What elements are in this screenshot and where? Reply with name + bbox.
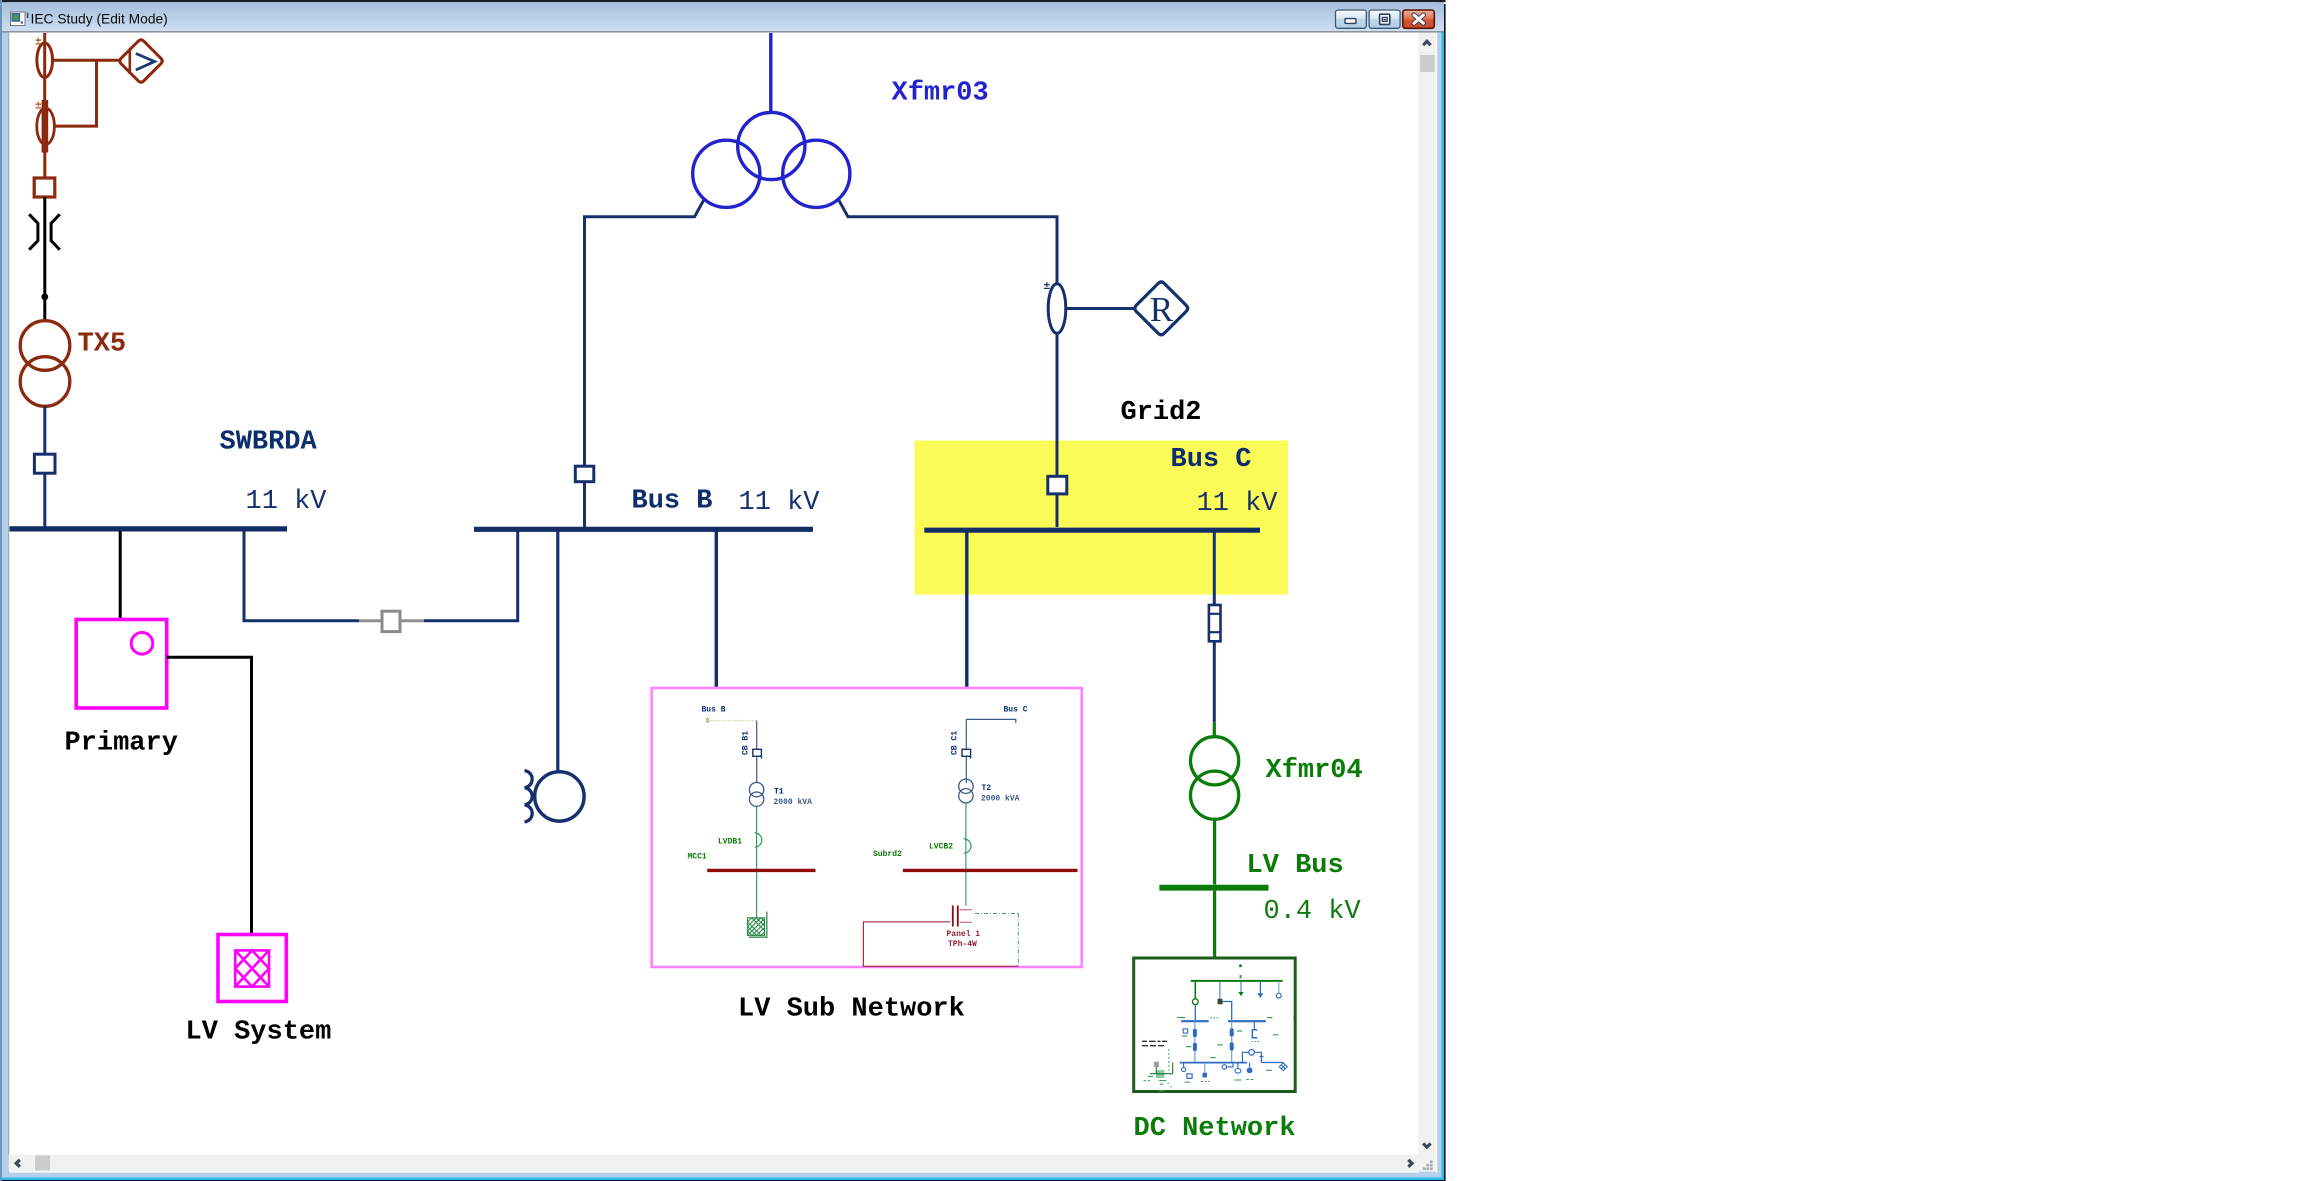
bus Bus B	[474, 527, 813, 532]
wire mini B1	[756, 721, 758, 784]
svg-text:Xfmr03: Xfmr03	[892, 79, 989, 109]
bus LVDB1 (mini, dark red)	[707, 869, 815, 872]
svg-text:LVDB1: LVDB1	[718, 838, 742, 847]
string 1 down	[1194, 1021, 1196, 1062]
wire LV Bus to DC Network	[1213, 891, 1216, 958]
panel capacitor bars	[953, 906, 958, 927]
title bar app icon	[11, 12, 29, 26]
transformer TX5	[20, 321, 70, 371]
bus Subrd2 (mini, dark red)	[903, 869, 1078, 872]
open switch square gray	[382, 611, 400, 631]
wire Bus B to motor	[556, 531, 559, 772]
subnetwork box DC Network	[1134, 958, 1296, 1092]
svg-text:11 kV: 11 kV	[1197, 489, 1279, 519]
svg-text:LV System: LV System	[186, 1018, 332, 1048]
breaker CB B1	[753, 749, 762, 756]
transformer Xfmr03	[769, 33, 772, 113]
bus SWBRDA	[10, 526, 288, 531]
svg-text:±: ±	[35, 37, 42, 49]
wire mini to MCC	[756, 872, 758, 918]
svg-text:Grid2: Grid2	[1121, 398, 1202, 428]
wire Xfmr04 to LV Bus	[1213, 819, 1216, 884]
wire brown to breaker	[43, 153, 46, 179]
bottom feeder c	[1222, 1065, 1226, 1069]
svg-text:LVCB2: LVCB2	[929, 843, 953, 852]
bottom feeder b	[1204, 1063, 1206, 1073]
svg-text:Bus B: Bus B	[702, 706, 726, 715]
load MCC1 hatched square	[748, 912, 767, 938]
bottom feeder e	[1249, 1063, 1251, 1067]
bus DC bottom (blue)	[1180, 1062, 1247, 1064]
svg-text:SWBRDA: SWBRDA	[220, 428, 318, 458]
wire brown vertical into CT1	[43, 33, 46, 43]
small device R	[1183, 1029, 1188, 1033]
horizontal scrollbar right arrow	[1408, 1160, 1412, 1167]
wire black Primary to LV System	[167, 657, 252, 934]
horizontal scrollbar track	[9, 1155, 1437, 1172]
wire mini green	[756, 806, 758, 868]
wire CT to relay R	[1066, 307, 1134, 310]
breaker square Bus B feeder	[575, 466, 594, 482]
svg-text:MCC1: MCC1	[688, 853, 707, 862]
title bar	[2, 2, 1444, 33]
vertical scrollbar track	[1419, 33, 1436, 1172]
svg-text:±: ±	[35, 101, 42, 113]
svg-text:DC Network: DC Network	[1134, 1114, 1296, 1144]
svg-text:TPh-4W: TPh-4W	[948, 940, 977, 949]
canvas	[8, 33, 1419, 1173]
junction dot	[41, 293, 48, 300]
relay R diamond	[1135, 282, 1188, 335]
string 2 down	[1231, 1021, 1233, 1062]
bus DC sub 1 (blue)	[1181, 1020, 1209, 1022]
svg-text:Xfmr04: Xfmr04	[1266, 756, 1363, 786]
feeder 1	[1194, 981, 1196, 999]
wire black down	[43, 197, 46, 321]
breaker LVCB1 (mini arc)	[755, 833, 762, 847]
vertical scrollbar down arrow	[1423, 1143, 1430, 1147]
svg-text:Bus C: Bus C	[1171, 445, 1252, 475]
small source circle	[1278, 981, 1280, 993]
breaker square Bus C feeder	[1048, 476, 1067, 494]
bracket device under bus2	[1253, 1021, 1255, 1029]
wire navy to SWBRDA bus	[43, 473, 46, 527]
wire Bus B into LV Sub Network	[715, 531, 718, 688]
wire branch down to winding	[54, 60, 97, 126]
fuse	[1209, 605, 1221, 641]
CT on Grid2 infeed	[1048, 284, 1066, 334]
resize grip	[1423, 1160, 1433, 1170]
transformer Xfmr04	[1191, 737, 1239, 785]
CT ellipse top-left	[37, 43, 53, 77]
minimize button	[1336, 10, 1367, 28]
svg-text:Subrd2: Subrd2	[873, 850, 902, 859]
wire Xfmr03 left winding to Bus B	[585, 201, 704, 467]
svg-text:R: R	[1150, 290, 1174, 329]
horizontal scrollbar left arrow	[16, 1160, 20, 1167]
yellow highlight on Bus C	[915, 441, 1289, 595]
transformer T1 (mini)	[749, 782, 763, 796]
svg-text:Bus C: Bus C	[1004, 706, 1028, 715]
wire brown horizontal to relay diamond	[53, 59, 120, 62]
left ground cluster	[1154, 1062, 1159, 1067]
bottom feeder a	[1183, 1063, 1185, 1068]
panel outline green dashed	[975, 914, 1018, 967]
wire Bus C into LV Sub Network	[965, 532, 968, 688]
svg-text:IEC Study (Edit Mode): IEC Study (Edit Mode)	[31, 12, 168, 27]
motor M1	[535, 772, 584, 821]
breaker LVCB2 (mini arc)	[964, 839, 971, 853]
wire Xfmr03 right winding to Bus C	[839, 201, 1057, 477]
breaker CB C1	[962, 749, 971, 756]
svg-text:2000 kVA: 2000 kVA	[774, 798, 813, 807]
svg-text:LV Sub Network: LV Sub Network	[738, 995, 965, 1025]
svg-text:11 kV: 11 kV	[739, 488, 821, 518]
bus DC main (green)	[1191, 980, 1283, 982]
wire fuse to Xfmr04	[1213, 641, 1216, 722]
load arrow green	[1240, 981, 1242, 992]
wire navy TX5 to breaker	[43, 406, 46, 454]
svg-text:LV Bus: LV Bus	[1247, 851, 1344, 881]
bottom feeder d	[1237, 1063, 1239, 1069]
maximize button	[1369, 10, 1400, 28]
vertical scrollbar thumb	[1420, 55, 1434, 72]
relay diamond with directional element	[120, 40, 162, 82]
shunt device LV System	[218, 935, 286, 1002]
right branch	[1242, 1052, 1248, 1062]
bus Bus C	[924, 528, 1260, 533]
close button	[1403, 10, 1435, 28]
svg-text:2000 kVA: 2000 kVA	[981, 794, 1020, 803]
window frame band	[0, 0, 1446, 1181]
svg-text:CB B1: CB B1	[742, 731, 751, 755]
load arrow blue	[1259, 981, 1261, 993]
svg-text:CB C1: CB C1	[951, 731, 960, 755]
svg-text:Primary: Primary	[65, 729, 178, 759]
breaker square navy	[34, 454, 55, 473]
wire mini green C	[965, 803, 967, 906]
bus LV Bus	[1159, 885, 1268, 891]
wire mini C1	[966, 719, 1016, 783]
vertical scrollbar up arrow	[1423, 41, 1430, 45]
panel outline red	[863, 922, 1018, 967]
transformer T2 (mini)	[959, 779, 973, 793]
svg-text:Bus B: Bus B	[632, 487, 713, 517]
dotted link	[707, 720, 756, 722]
svg-text:T2: T2	[982, 784, 992, 793]
tie line SWBRDA to Bus B with open switch	[244, 531, 359, 621]
svg-text:11 kV: 11 kV	[246, 487, 328, 517]
svg-text:±: ±	[1044, 281, 1051, 293]
svg-text:T1: T1	[774, 788, 784, 797]
cable coupling symbol	[29, 214, 38, 249]
bus DC sub 2 (blue)	[1228, 1020, 1266, 1022]
wire black bus to Primary	[119, 531, 122, 620]
shunt device Primary	[76, 620, 167, 709]
wire Bus C to fuse	[1213, 532, 1216, 605]
svg-text:0.4 kV: 0.4 kV	[1264, 897, 1362, 927]
svg-text:Panel 1: Panel 1	[947, 930, 981, 939]
subnetwork box LV Sub Network	[652, 688, 1082, 967]
winding transformer symbol	[42, 100, 49, 153]
svg-text:TX5: TX5	[78, 330, 127, 360]
breaker square brown	[34, 178, 55, 197]
horizontal scrollbar thumb	[35, 1156, 50, 1171]
feeder 2	[1219, 981, 1221, 999]
label rows	[1142, 1040, 1167, 1042]
